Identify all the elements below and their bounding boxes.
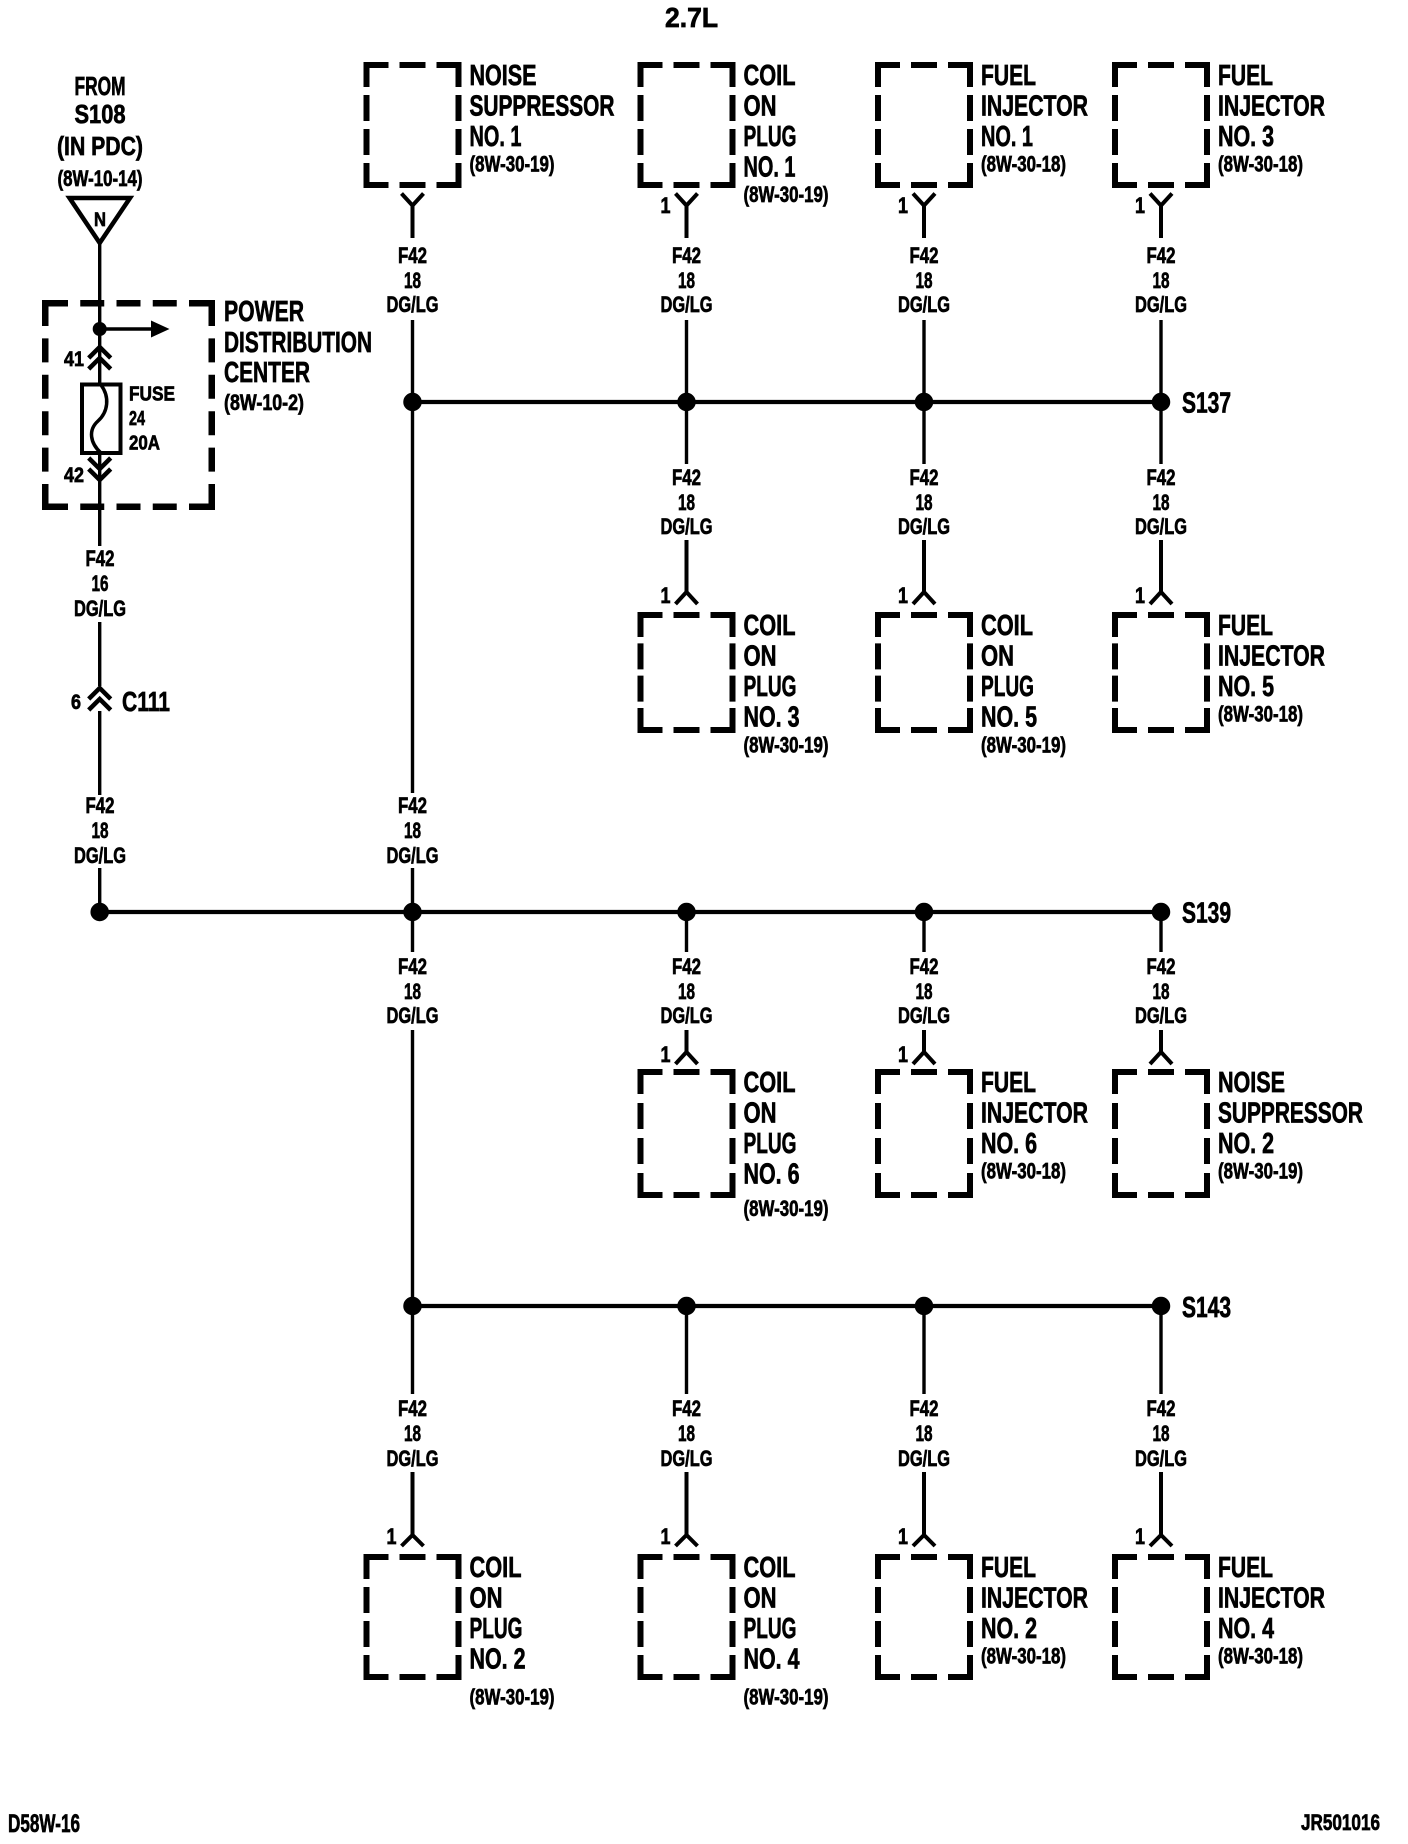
- svg-text:COIL: COIL: [744, 1552, 796, 1584]
- component box FUEL INJECTOR NO. 5 (8W-30-18): [1112, 610, 1325, 733]
- wire label F42 18 DG/LG: [898, 954, 950, 1028]
- svg-text:DG/LG: DG/LG: [661, 292, 713, 317]
- svg-text:18: 18: [916, 1421, 933, 1446]
- svg-text:F42: F42: [910, 954, 939, 979]
- svg-text:18: 18: [1153, 490, 1170, 515]
- svg-text:FUEL: FUEL: [1218, 60, 1273, 92]
- svg-text:(8W-30-19): (8W-30-19): [470, 1684, 555, 1709]
- svg-text:F42: F42: [910, 243, 939, 268]
- svg-text:COIL: COIL: [981, 610, 1033, 642]
- svg-text:PLUG: PLUG: [470, 1613, 523, 1645]
- svg-text:PLUG: PLUG: [981, 671, 1034, 703]
- svg-text:1: 1: [387, 1524, 397, 1549]
- svg-text:PLUG: PLUG: [744, 1613, 797, 1645]
- svg-text:(8W-30-19): (8W-30-19): [744, 1196, 829, 1221]
- connector pin 1 above box: [898, 540, 935, 608]
- svg-text:DG/LG: DG/LG: [661, 1446, 713, 1471]
- svg-text:18: 18: [916, 490, 933, 515]
- wire label F42 18 DG/LG: [898, 1396, 950, 1471]
- wire label F42 18 DG/LG: [898, 243, 950, 317]
- svg-text:(8W-30-19): (8W-30-19): [470, 151, 555, 176]
- svg-text:DG/LG: DG/LG: [661, 514, 713, 539]
- power distribution center dashed box: [42, 300, 215, 510]
- wire to splice S143: [411, 1030, 414, 1306]
- wire from S139: [922, 912, 925, 952]
- wire label F42 18 DG/LG: [387, 243, 439, 317]
- svg-text:FUEL: FUEL: [981, 1552, 1036, 1584]
- svg-text:DG/LG: DG/LG: [1135, 514, 1187, 539]
- svg-text:18: 18: [404, 268, 421, 293]
- connector pin 1 above box: [898, 1472, 935, 1549]
- wire to splice S139: [98, 868, 101, 912]
- component box FUEL INJECTOR NO. 6 (8W-30-18): [875, 1067, 1088, 1198]
- wire label F42 18 DG/LG: [387, 793, 439, 868]
- svg-text:NO. 6: NO. 6: [744, 1158, 800, 1190]
- svg-text:(8W-30-18): (8W-30-18): [1218, 701, 1303, 726]
- wire label F42 18 DG/LG: [661, 243, 713, 317]
- wire from S139: [685, 912, 688, 952]
- svg-text:DG/LG: DG/LG: [1135, 1003, 1187, 1028]
- svg-text:S143: S143: [1182, 1292, 1231, 1324]
- svg-text:F42: F42: [398, 954, 427, 979]
- svg-text:1: 1: [1135, 1524, 1145, 1549]
- svg-text:(8W-10-2): (8W-10-2): [224, 390, 304, 415]
- svg-text:18: 18: [1153, 1421, 1170, 1446]
- svg-text:PLUG: PLUG: [744, 1128, 797, 1160]
- svg-text:(IN PDC): (IN PDC): [57, 131, 143, 161]
- svg-text:DG/LG: DG/LG: [1135, 1446, 1187, 1471]
- svg-text:C111: C111: [122, 686, 170, 717]
- component box COIL ON PLUG NO. 1 (8W-30-19): [638, 60, 829, 207]
- wire from S143: [922, 1306, 925, 1394]
- svg-text:1: 1: [661, 1524, 671, 1549]
- node S108 feed label FROM S108 (IN PDC) (8W-10-14): [57, 71, 143, 191]
- svg-text:F42: F42: [398, 243, 427, 268]
- connector below box pin 1: [898, 193, 935, 238]
- svg-text:1: 1: [898, 583, 908, 608]
- svg-text:1: 1: [1135, 583, 1145, 608]
- wire from S139: [1159, 912, 1162, 952]
- component box FUEL INJECTOR NO. 1 (8W-30-18): [875, 60, 1088, 188]
- svg-text:CENTER: CENTER: [224, 357, 310, 389]
- svg-text:INJECTOR: INJECTOR: [1218, 1582, 1325, 1614]
- svg-text:ON: ON: [744, 90, 777, 122]
- svg-text:1: 1: [898, 1042, 908, 1067]
- svg-text:F42: F42: [398, 793, 427, 818]
- wire label F42 18 DG/LG: [1135, 1396, 1187, 1471]
- component box FUEL INJECTOR NO. 4 (8W-30-18): [1112, 1552, 1325, 1680]
- svg-text:NO. 1: NO. 1: [470, 121, 522, 153]
- svg-text:ON: ON: [744, 640, 777, 672]
- svg-text:NOISE: NOISE: [1218, 1067, 1285, 1099]
- wire from S143: [685, 1306, 688, 1394]
- svg-text:18: 18: [678, 268, 695, 293]
- wire from S137: [1159, 402, 1162, 464]
- svg-text:18: 18: [1153, 979, 1170, 1004]
- svg-text:NO. 4: NO. 4: [1218, 1613, 1274, 1645]
- svg-text:FUEL: FUEL: [981, 60, 1036, 92]
- wire label F42 18 DG/LG: [661, 954, 713, 1028]
- svg-text:NO. 1: NO. 1: [981, 121, 1033, 153]
- svg-text:DG/LG: DG/LG: [898, 1446, 950, 1471]
- svg-text:N: N: [94, 210, 106, 231]
- wire from S137 to S139: [411, 402, 414, 793]
- svg-text:INJECTOR: INJECTOR: [981, 1097, 1088, 1129]
- svg-text:D58W-16: D58W-16: [8, 1810, 80, 1838]
- svg-text:1: 1: [661, 1042, 671, 1067]
- wire to splice S137: [685, 320, 688, 402]
- svg-text:(8W-30-19): (8W-30-19): [744, 182, 829, 207]
- wire label F42 18 DG/LG: [1135, 243, 1187, 317]
- svg-text:F42: F42: [1147, 243, 1176, 268]
- svg-text:(8W-30-18): (8W-30-18): [981, 151, 1066, 176]
- svg-text:20A: 20A: [129, 433, 160, 455]
- svg-text:6: 6: [71, 691, 81, 714]
- svg-text:18: 18: [678, 1421, 695, 1446]
- svg-text:COIL: COIL: [744, 610, 796, 642]
- wire label F42 18 DG/LG: [661, 1396, 713, 1471]
- component box COIL ON PLUG NO. 3 (8W-30-19): [638, 610, 829, 757]
- connector pin 1 above box: [1135, 540, 1172, 608]
- wire from triangle N into PDC: [98, 243, 101, 331]
- svg-text:COIL: COIL: [744, 60, 796, 92]
- svg-text:DG/LG: DG/LG: [898, 514, 950, 539]
- svg-text:(8W-30-18): (8W-30-18): [981, 1643, 1066, 1668]
- svg-text:F42: F42: [1147, 954, 1176, 979]
- svg-text:F42: F42: [910, 465, 939, 490]
- junction dot in PDC: [93, 323, 106, 336]
- connector above box: [1150, 1030, 1172, 1064]
- svg-text:DG/LG: DG/LG: [898, 292, 950, 317]
- svg-text:NO. 2: NO. 2: [470, 1643, 526, 1675]
- svg-text:18: 18: [916, 268, 933, 293]
- wire: [98, 711, 101, 795]
- wire: [411, 868, 414, 912]
- wire label F42 16 DG/LG: [74, 546, 126, 621]
- component box NOISE SUPPRESSOR NO. 2 (8W-30-19): [1112, 1067, 1363, 1198]
- svg-text:PLUG: PLUG: [744, 121, 797, 153]
- connector N triangle from S108: [70, 198, 131, 243]
- connector above box pin 1: [898, 1030, 935, 1067]
- wire out of PDC: [98, 453, 101, 546]
- svg-text:(8W-30-18): (8W-30-18): [1218, 1643, 1303, 1668]
- svg-text:1: 1: [898, 1524, 908, 1549]
- svg-text:FUEL: FUEL: [981, 1067, 1036, 1099]
- svg-text:1: 1: [661, 193, 671, 218]
- svg-text:F42: F42: [398, 1396, 427, 1421]
- svg-text:18: 18: [1153, 268, 1170, 293]
- svg-text:(8W-10-14): (8W-10-14): [58, 166, 143, 191]
- wire label F42 18 DG/LG: [898, 465, 950, 539]
- wire from S137: [922, 402, 925, 464]
- svg-text:1: 1: [661, 583, 671, 608]
- component box FUEL INJECTOR NO. 2 (8W-30-18): [875, 1552, 1088, 1680]
- svg-text:DG/LG: DG/LG: [387, 1003, 439, 1028]
- svg-text:(8W-30-19): (8W-30-19): [744, 732, 829, 757]
- wire: [98, 622, 101, 686]
- svg-text:1: 1: [1135, 193, 1145, 218]
- svg-text:(8W-30-19): (8W-30-19): [744, 1684, 829, 1709]
- svg-text:F42: F42: [910, 1396, 939, 1421]
- svg-text:DG/LG: DG/LG: [387, 1446, 439, 1471]
- svg-text:PLUG: PLUG: [744, 671, 797, 703]
- svg-text:NO. 5: NO. 5: [1218, 671, 1274, 703]
- svg-text:42: 42: [64, 464, 84, 487]
- svg-text:COIL: COIL: [470, 1552, 522, 1584]
- svg-text:DG/LG: DG/LG: [898, 1003, 950, 1028]
- component box COIL ON PLUG NO. 4 (8W-30-19): [638, 1552, 829, 1709]
- splice S137 bus: [404, 388, 1231, 420]
- component box FUEL INJECTOR NO. 3 (8W-30-18): [1112, 60, 1325, 188]
- svg-text:18: 18: [916, 979, 933, 1004]
- connector pin 1 above box: [661, 540, 698, 608]
- svg-text:NO. 2: NO. 2: [1218, 1128, 1274, 1160]
- svg-text:18: 18: [678, 979, 695, 1004]
- connector below box pin 1: [1135, 193, 1172, 238]
- svg-text:F42: F42: [672, 243, 701, 268]
- wire label F42 18 DG/LG: [1135, 465, 1187, 539]
- connector below box pin 1: [661, 193, 698, 238]
- svg-text:ON: ON: [744, 1582, 777, 1614]
- svg-text:JR501016: JR501016: [1301, 1810, 1380, 1835]
- svg-text:F42: F42: [672, 954, 701, 979]
- svg-text:NO. 4: NO. 4: [744, 1643, 800, 1675]
- svg-text:F42: F42: [1147, 465, 1176, 490]
- svg-text:INJECTOR: INJECTOR: [981, 90, 1088, 122]
- svg-text:1: 1: [898, 193, 908, 218]
- svg-text:SUPPRESSOR: SUPPRESSOR: [1218, 1097, 1363, 1129]
- svg-text:(8W-30-18): (8W-30-18): [981, 1158, 1066, 1183]
- connector pin 1 above box: [661, 1472, 698, 1549]
- svg-text:NO. 1: NO. 1: [744, 151, 796, 183]
- svg-text:NO. 6: NO. 6: [981, 1128, 1037, 1160]
- wire from S139: [411, 912, 414, 952]
- svg-text:18: 18: [92, 818, 109, 843]
- svg-text:DISTRIBUTION: DISTRIBUTION: [224, 327, 372, 359]
- svg-text:S137: S137: [1182, 388, 1231, 420]
- svg-text:FROM: FROM: [75, 71, 126, 101]
- svg-text:24: 24: [129, 408, 146, 430]
- svg-text:F42: F42: [672, 465, 701, 490]
- fuse 24 20A: [82, 385, 121, 454]
- wire label F42 18 DG/LG: [1135, 954, 1187, 1028]
- svg-text:41: 41: [64, 348, 84, 371]
- splice S139 bus: [91, 898, 1231, 930]
- wire from S143: [411, 1306, 414, 1394]
- svg-text:DG/LG: DG/LG: [74, 843, 126, 868]
- connector above box pin 1: [661, 1030, 698, 1067]
- svg-text:ON: ON: [981, 640, 1014, 672]
- svg-text:F42: F42: [86, 793, 115, 818]
- svg-text:INJECTOR: INJECTOR: [1218, 640, 1325, 672]
- svg-text:16: 16: [92, 571, 109, 596]
- svg-text:(8W-30-19): (8W-30-19): [981, 732, 1066, 757]
- svg-text:DG/LG: DG/LG: [661, 1003, 713, 1028]
- svg-text:INJECTOR: INJECTOR: [981, 1582, 1088, 1614]
- svg-text:ON: ON: [470, 1582, 503, 1614]
- svg-text:(8W-30-18): (8W-30-18): [1218, 151, 1303, 176]
- svg-text:DG/LG: DG/LG: [1135, 292, 1187, 317]
- wire label F42 18 DG/LG: [661, 465, 713, 539]
- wire label F42 18 DG/LG: [387, 954, 439, 1028]
- svg-text:18: 18: [404, 818, 421, 843]
- PDC label POWER DISTRIBUTION CENTER (8W-10-2): [224, 296, 372, 415]
- component box COIL ON PLUG NO. 6 (8W-30-19): [638, 1067, 829, 1221]
- svg-text:F42: F42: [1147, 1396, 1176, 1421]
- svg-text:FUSE: FUSE: [129, 384, 175, 406]
- arrow to other PDC circuits: [100, 327, 151, 330]
- wire to splice S137: [1159, 320, 1162, 402]
- svg-text:DG/LG: DG/LG: [387, 292, 439, 317]
- wire label F42 18 DG/LG: [387, 1396, 439, 1471]
- wire from S137: [685, 402, 688, 464]
- wire: [98, 331, 101, 385]
- svg-text:F42: F42: [672, 1396, 701, 1421]
- svg-text:2.7L: 2.7L: [665, 2, 718, 33]
- svg-text:NO. 2: NO. 2: [981, 1613, 1037, 1645]
- svg-text:COIL: COIL: [744, 1067, 796, 1099]
- svg-text:18: 18: [404, 1421, 421, 1446]
- fuse value label FUSE 24 20A: [129, 384, 175, 455]
- component box NOISE SUPPRESSOR NO. 1 (8W-30-19): [364, 60, 615, 188]
- component box COIL ON PLUG NO. 2 (8W-30-19): [364, 1552, 555, 1709]
- svg-text:NO. 5: NO. 5: [981, 701, 1037, 733]
- svg-text:S108: S108: [75, 99, 126, 129]
- wire to splice S137: [411, 320, 414, 402]
- wire from S143: [1159, 1306, 1162, 1394]
- connector pin 1 above box: [387, 1472, 424, 1549]
- svg-text:NO. 3: NO. 3: [1218, 121, 1274, 153]
- connector below box: [402, 194, 424, 239]
- component box COIL ON PLUG NO. 5 (8W-30-19): [875, 610, 1066, 757]
- svg-text:FUEL: FUEL: [1218, 610, 1273, 642]
- svg-text:18: 18: [404, 979, 421, 1004]
- svg-text:18: 18: [678, 490, 695, 515]
- svg-text:(8W-30-19): (8W-30-19): [1218, 1158, 1303, 1183]
- svg-text:INJECTOR: INJECTOR: [1218, 90, 1325, 122]
- svg-text:NOISE: NOISE: [470, 60, 537, 92]
- svg-text:FUEL: FUEL: [1218, 1552, 1273, 1584]
- svg-text:S139: S139: [1182, 898, 1231, 930]
- splice S143 bus: [404, 1292, 1231, 1324]
- svg-text:SUPPRESSOR: SUPPRESSOR: [470, 90, 615, 122]
- svg-text:NO. 3: NO. 3: [744, 701, 800, 733]
- svg-text:POWER: POWER: [224, 296, 304, 328]
- connector pin 1 above box: [1135, 1472, 1172, 1549]
- svg-text:ON: ON: [744, 1097, 777, 1129]
- svg-text:DG/LG: DG/LG: [387, 843, 439, 868]
- svg-text:DG/LG: DG/LG: [74, 596, 126, 621]
- wire to splice S137: [922, 320, 925, 402]
- svg-text:F42: F42: [86, 546, 115, 571]
- wire label F42 18 DG/LG: [74, 793, 126, 868]
